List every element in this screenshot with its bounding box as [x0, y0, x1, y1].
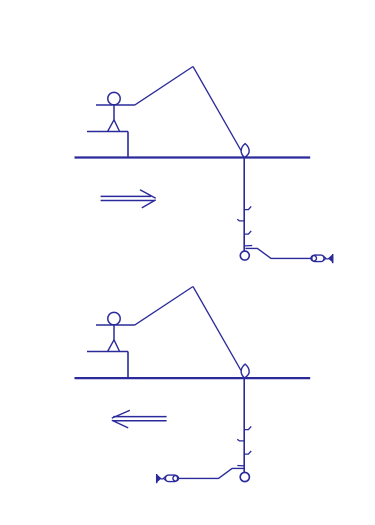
fishing rod lower segment (bottom)	[135, 287, 194, 326]
dock box top edge (bottom)	[87, 351, 128, 353]
sinker ring	[240, 251, 249, 260]
fishing rod lower segment	[135, 67, 194, 106]
fish tail bar (bottom)	[156, 474, 158, 483]
arrow right: upper barb	[140, 190, 156, 199]
line barb 4 bottom (short left)	[237, 465, 245, 467]
fish tail bar	[332, 254, 334, 263]
fishing rod upper segment (bottom)	[193, 287, 241, 371]
fish head (left panel fish)	[173, 476, 179, 482]
arrow left: upper barb	[112, 410, 130, 418]
fisherman body (bottom)	[113, 325, 115, 341]
fish body (bottom)	[165, 475, 177, 482]
fish tail (bottom)	[157, 475, 161, 482]
line barb 3 (right)	[245, 231, 252, 234]
fisherman left leg	[108, 120, 114, 132]
fisherman right leg	[114, 120, 120, 132]
fish rear taper	[323, 256, 326, 262]
arrow right: top shaft	[101, 195, 151, 197]
leader line to fish (right)	[245, 248, 311, 258]
arrow left: top shaft	[113, 416, 166, 418]
fisherman head	[108, 92, 120, 104]
line barb 2 bottom (left)	[237, 439, 244, 441]
water line (bottom panel)	[75, 377, 311, 379]
dock box right edge	[127, 132, 129, 158]
fish tail	[329, 255, 333, 262]
arrow right: bottom shaft	[101, 200, 155, 202]
line barb 1 (right)	[245, 206, 252, 209]
fisherman arms (bottom)	[96, 324, 135, 326]
fisherman arms	[96, 104, 135, 106]
line barb 1 bottom (right)	[245, 426, 252, 429]
leader line to fish (left)	[179, 468, 245, 478]
arrow left: lower barb	[112, 420, 128, 428]
fisherman right leg (bottom)	[114, 340, 120, 352]
fishing line below water	[243, 158, 245, 251]
fisherman body	[113, 105, 115, 121]
fishing line below water (bottom)	[243, 378, 245, 472]
fish body	[312, 255, 324, 262]
fish tail link	[326, 258, 329, 260]
fish head (right panel fish)	[311, 255, 317, 261]
rod tip float diamond (bottom)	[241, 364, 249, 378]
line barb 4 (short)	[245, 245, 253, 247]
fisherman left leg (bottom)	[108, 340, 114, 352]
arrow right: lower barb	[142, 200, 156, 208]
rod tip float (diamond)	[241, 144, 249, 158]
arrow left: bottom shaft	[113, 420, 167, 422]
fish rear taper (bottom)	[163, 476, 166, 482]
fishing rod upper segment	[193, 67, 241, 151]
dock box top edge	[87, 131, 128, 133]
sinker ring (bottom)	[240, 472, 249, 481]
dock box right edge (bottom)	[127, 352, 129, 379]
line barb 3 bottom (right)	[245, 451, 252, 454]
line barb 2 (left)	[237, 219, 244, 221]
fish tail link (bottom)	[161, 478, 164, 480]
fisherman head (bottom)	[108, 312, 120, 324]
water line (top panel)	[75, 156, 311, 158]
